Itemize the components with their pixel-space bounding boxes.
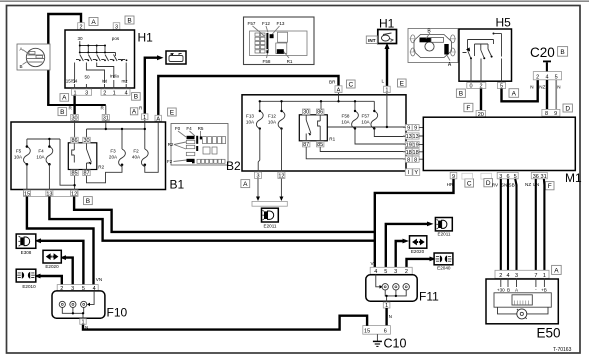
svg-text:8: 8: [545, 111, 548, 117]
label A connector box of H1 top: [89, 18, 98, 26]
fuse F12 10A: [268, 110, 285, 130]
svg-text:NZ: NZ: [525, 182, 531, 187]
pin 30 of B1: [71, 115, 79, 122]
label F box: [545, 182, 554, 191]
E50 pin strip 2 4 3 7 1: [495, 270, 549, 279]
car location illustration: [408, 29, 458, 69]
wire B2 pin1 up to H1 INT with arrow: [385, 43, 390, 87]
label B box below H5: [456, 89, 465, 98]
svg-text:12: 12: [278, 173, 284, 179]
M1 bottom pins 36 31: [531, 172, 547, 179]
battery + feed symbol: [543, 61, 551, 72]
label B box left of B1 pin30: [58, 108, 67, 116]
C20 pin strip 2 4 5: [533, 72, 561, 81]
relay pin 87: [303, 141, 310, 148]
svg-text:F57: F57: [362, 114, 370, 119]
E2011 icon (below B2): [262, 208, 279, 228]
svg-text:+B: +B: [541, 287, 547, 292]
svg-text:31: 31: [541, 174, 547, 180]
H1 bottom pin strip right (2,1,4): [101, 89, 130, 96]
B1 bottom pin strip: [23, 190, 78, 197]
svg-text:6: 6: [384, 329, 387, 335]
svg-text:15: 15: [364, 329, 370, 335]
fuse F58 10A: [341, 110, 358, 130]
wires M1 pins 3 6 5 to E50: [501, 179, 517, 270]
svg-text:E2020: E2020: [45, 264, 59, 269]
svg-text:3: 3: [515, 273, 518, 279]
svg-text:C: C: [467, 180, 472, 187]
svg-text:19: 19: [406, 143, 412, 149]
wire H1 pin1 down to B1 pin30: [73, 95, 75, 115]
svg-text:1: 1: [543, 273, 546, 279]
svg-text:50: 50: [84, 75, 90, 80]
wire M1 pin9 to F11 pin4: [375, 179, 454, 267]
switch unit H1 box: [65, 30, 153, 88]
wires M1 pins 36 31 to E50: [536, 179, 545, 270]
F58 output to row19: [355, 129, 406, 144]
svg-text:F13: F13: [277, 21, 285, 26]
svg-text:86: 86: [317, 110, 323, 116]
B1 box: [11, 122, 185, 192]
svg-text:18: 18: [406, 150, 412, 156]
svg-text:2: 2: [536, 74, 539, 80]
label E box right of B2 pin1: [398, 79, 407, 87]
wire labels RV SN SB: [492, 182, 515, 187]
relay85 output to row18: [320, 147, 405, 152]
svg-text:86: 86: [71, 138, 77, 144]
svg-text:F58: F58: [263, 59, 271, 64]
wire F10 pin2 ref to E2010: [34, 274, 62, 285]
page top rule: [0, 0, 589, 2]
INT tag box: [366, 36, 377, 44]
svg-text:N: N: [530, 85, 533, 90]
svg-text:B2: B2: [226, 159, 241, 173]
wire H5 pin5 to C20 pin2: [502, 80, 538, 101]
label B below H1: [132, 93, 141, 101]
E50 internals: [494, 279, 551, 319]
svg-text:B: B: [134, 94, 138, 101]
svg-text:A: A: [62, 95, 67, 102]
pin 1 on B2 top: [384, 86, 391, 93]
E2020 icon box (right): [410, 236, 427, 254]
B2 internal supply rail: [259, 93, 375, 115]
svg-text:int: int: [102, 79, 108, 84]
wire F11 pin3 ref to E2020: [396, 239, 409, 268]
svg-text:3: 3: [85, 90, 88, 96]
svg-text:30: 30: [77, 36, 83, 41]
svg-text:30: 30: [303, 110, 309, 116]
svg-text:10A: 10A: [246, 120, 255, 125]
svg-text:A: A: [337, 87, 341, 93]
svg-text:N: N: [557, 85, 560, 90]
fuse location illustration (right of B1): [167, 124, 228, 166]
H5 bottom pin strip: [467, 83, 506, 90]
svg-text:R2: R2: [98, 165, 104, 170]
B2/M1 connector pin ladder: [403, 125, 424, 164]
svg-text:F12: F12: [268, 114, 276, 119]
wire H5 pin2 to M1 pin20: [480, 89, 482, 111]
relay pin 86: [317, 109, 324, 116]
fuse F4 10A: [36, 145, 52, 165]
svg-text:BR: BR: [329, 80, 336, 85]
relay R2 box: [68, 143, 104, 170]
svg-text:40A: 40A: [132, 155, 141, 160]
fuse F2 40A: [132, 149, 148, 167]
svg-text:F58: F58: [342, 114, 350, 119]
svg-text:0: 0: [469, 84, 472, 90]
svg-text:F0: F0: [175, 126, 181, 131]
F13 output to pin3: [258, 129, 260, 172]
svg-text:H5: H5: [496, 16, 512, 30]
M1 top pin 20: [476, 110, 485, 117]
label C box: [465, 179, 474, 188]
svg-text:E308: E308: [21, 250, 32, 255]
svg-text:M1: M1: [565, 171, 582, 185]
svg-text:9: 9: [407, 126, 410, 132]
wire stub B1 pin31 up: [105, 106, 107, 115]
E308 icon box (left headlight): [16, 234, 36, 255]
svg-text:F11: F11: [419, 290, 439, 304]
E2040 icon box (right): [434, 253, 453, 270]
H5 internal contacts: [463, 33, 502, 83]
svg-text:SB: SB: [509, 182, 515, 187]
svg-text:F12: F12: [262, 21, 270, 26]
ground symbol: [373, 334, 382, 346]
M1 bottom pins 3 6 5: [497, 172, 518, 179]
svg-text:mz: mz: [121, 79, 128, 84]
svg-text:T-70163: T-70163: [553, 347, 572, 353]
svg-text:A: A: [554, 268, 559, 275]
svg-text:E: E: [400, 80, 405, 87]
svg-text:SN: SN: [501, 182, 507, 187]
pin 2 of H1 top: [78, 23, 85, 31]
svg-text:9: 9: [414, 126, 417, 132]
svg-text:B: B: [60, 109, 64, 116]
svg-text:B: B: [507, 287, 510, 292]
F10 pin 1: [80, 319, 86, 326]
battery reference icon box: [166, 51, 186, 64]
svg-text:E2010: E2010: [22, 284, 36, 289]
svg-text:F57: F57: [248, 21, 256, 26]
label C box: [347, 80, 356, 88]
svg-text:A: A: [512, 91, 517, 98]
wire labels NZ LN: [525, 182, 539, 187]
relay pin 30: [83, 137, 90, 144]
label A box above B1 pin1: [130, 108, 137, 116]
svg-text:5: 5: [555, 74, 558, 80]
svg-text:9: 9: [554, 111, 557, 117]
B1 internal 30 rail: [75, 120, 146, 149]
E2020 icon box (left): [43, 250, 61, 268]
svg-text:15/54: 15/54: [66, 79, 78, 84]
E50 box: [486, 279, 561, 341]
svg-text:10A: 10A: [36, 155, 45, 160]
B2 bottom pin 3: [255, 172, 262, 179]
wire F10 pin5 ref to E308: [35, 238, 84, 284]
svg-text:L: L: [382, 79, 385, 84]
svg-text:F4: F4: [186, 126, 192, 131]
fuse F57 10A: [361, 110, 377, 130]
svg-text:10A: 10A: [14, 155, 23, 160]
F10 internals: [59, 291, 94, 319]
svg-text:1: 1: [385, 88, 388, 94]
F10 lamp unit box: [52, 291, 128, 320]
F57 output to row13: [374, 129, 405, 137]
M1 bottom pin 9: [450, 172, 457, 179]
svg-text:30: 30: [83, 138, 89, 144]
relay R1 box: [299, 115, 335, 142]
svg-text:A: A: [243, 181, 248, 188]
fuse F5 10A: [14, 145, 30, 165]
relay pin 85: [71, 170, 78, 177]
connector face illustration (circle): [17, 44, 50, 70]
svg-text:B: B: [127, 17, 131, 24]
label A below H1: [60, 94, 69, 102]
relay 87 wire to F3: [87, 165, 123, 183]
svg-text:C10: C10: [384, 337, 407, 351]
relay pin 30: [303, 109, 310, 116]
switch unit H5 box: [459, 16, 512, 82]
pin 3 of H1 top: [113, 23, 120, 31]
label E box top right of B1: [168, 108, 177, 116]
E2011 icon box (right): [435, 218, 452, 237]
pin 31 of B1: [102, 115, 109, 122]
B1.A internal wire to F2: [145, 121, 158, 172]
label A box below H5: [509, 89, 519, 98]
svg-text:R2: R2: [168, 142, 174, 147]
svg-text:E2020: E2020: [411, 249, 425, 254]
wire F10 pin3 ref to E2020: [60, 255, 73, 284]
svg-text:13: 13: [413, 134, 419, 140]
svg-text:4: 4: [545, 74, 548, 80]
F11 lamp unit box: [366, 275, 439, 304]
wire B1.A up over to B2.A (BR): [158, 76, 338, 116]
B2 output arrows to E2011: [252, 179, 287, 207]
svg-text:F: F: [466, 105, 470, 112]
svg-text:F5: F5: [16, 149, 22, 154]
F4 output to pin13: [48, 164, 50, 190]
svg-text:F3: F3: [110, 149, 116, 154]
svg-text:19: 19: [413, 143, 419, 149]
F11 internals: [376, 274, 410, 302]
svg-text:4: 4: [506, 273, 509, 279]
svg-text:N: N: [85, 325, 88, 330]
svg-text:F4: F4: [38, 149, 44, 154]
F5 output to pin15: [26, 164, 28, 190]
H1 bottom pin strip left (1,3): [72, 89, 92, 96]
svg-text:+30: +30: [497, 287, 505, 292]
battery reference wire with arrow: [145, 55, 164, 114]
B2 box: [226, 95, 406, 173]
svg-text:1: 1: [113, 90, 116, 96]
svg-text:C20: C20: [530, 45, 555, 60]
label B box below B1: [84, 197, 93, 205]
F12 output to pin12: [281, 129, 283, 172]
svg-text:VN: VN: [96, 277, 102, 282]
svg-text:Y: Y: [414, 170, 418, 176]
label F box: [464, 103, 473, 112]
label D box: [563, 104, 572, 112]
svg-text:R5: R5: [198, 126, 204, 131]
B2 pin1 internal wire: [328, 93, 406, 128]
svg-text:F10: F10: [107, 306, 128, 320]
svg-text:E2040: E2040: [437, 265, 451, 270]
pin A of B1: [155, 115, 161, 122]
svg-text:NZ: NZ: [539, 85, 545, 90]
wire B1 pin12 staircase to F11 pin4 column: [74, 197, 375, 232]
svg-text:F13: F13: [246, 114, 254, 119]
relay pin 87: [83, 170, 90, 177]
F11 pin strip 4 5 3 2: [370, 267, 412, 275]
svg-text:INT: INT: [368, 38, 376, 43]
wire battery feed to H1 pin2 and B1 pins 30/31 (R): [47, 14, 106, 106]
svg-text:13: 13: [406, 134, 412, 140]
svg-text:B1: B1: [170, 178, 185, 192]
svg-text:B: B: [20, 64, 23, 69]
svg-text:2: 2: [103, 90, 106, 96]
node junction at 74.6,105.5: [73, 104, 76, 107]
wire B1 pin15 staircase to F10 pin4 (VN): [27, 197, 94, 285]
H1 INT icon box: [378, 30, 397, 44]
svg-text:pos: pos: [112, 36, 120, 41]
relay pin 86: [71, 137, 78, 144]
svg-text:D: D: [565, 105, 570, 112]
label A box: [552, 265, 562, 274]
relay pin 85: [317, 141, 324, 148]
M1 top pins 8 9: [542, 109, 560, 117]
wire F11 pin1 to C10 pin6 (N): [387, 308, 392, 326]
svg-text:E50: E50: [537, 326, 561, 341]
C20 label: [530, 45, 555, 60]
wire F10 pin1 to C10 pin15: [83, 316, 367, 330]
wire B1 pin13 staircase to F11 pin4 column: [49, 197, 374, 241]
relay 85 wire to pin12: [73, 176, 75, 190]
B2 bottom pin 12: [278, 172, 285, 179]
svg-text:C: C: [348, 81, 353, 88]
svg-text:E: E: [170, 109, 175, 116]
svg-text:int/a: int/a: [110, 74, 119, 79]
svg-text:D: D: [486, 180, 491, 187]
B1 fuse supply rail F5/F4: [27, 138, 75, 185]
svg-text:20A: 20A: [109, 155, 118, 160]
svg-text:B: B: [86, 198, 90, 205]
svg-text:10A: 10A: [268, 120, 277, 125]
svg-text:F: F: [548, 183, 552, 190]
svg-text:A: A: [91, 19, 96, 26]
wire C20 pin4 to M1 pin8: [546, 80, 548, 110]
svg-text:8: 8: [407, 157, 410, 163]
label D box: [484, 179, 493, 188]
svg-text:18: 18: [413, 150, 419, 156]
svg-text:F2: F2: [167, 159, 173, 164]
wire F11 pin5 ref to E2011: [386, 222, 434, 268]
svg-text:7: 7: [534, 273, 537, 279]
svg-text:H1: H1: [138, 31, 154, 45]
svg-text:RV: RV: [492, 182, 499, 187]
svg-text:F2: F2: [133, 149, 139, 154]
connector letter boxes I / Y: [405, 169, 419, 176]
F10 pin strip 2 3 5 4: [57, 285, 98, 292]
label B connector box of H1 top: [125, 16, 134, 24]
svg-text:10A: 10A: [341, 120, 350, 125]
F11 pin 1: [383, 302, 390, 309]
wire C20 pin5 to M1 pin9 (grey): [555, 80, 557, 110]
label A box below B2: [241, 180, 250, 188]
fuse F13 10A: [246, 110, 263, 130]
relay87 output to row8: [306, 147, 405, 159]
svg-text:A: A: [132, 109, 137, 116]
svg-text:H1: H1: [379, 17, 395, 31]
label B box: [558, 47, 568, 57]
svg-text:1: 1: [73, 90, 76, 96]
svg-text:8: 8: [414, 157, 417, 163]
svg-text:R1: R1: [287, 59, 293, 64]
svg-text:E2011: E2011: [264, 223, 277, 228]
wire F11 pin2 ref to E2040: [407, 257, 437, 268]
svg-text:R1: R1: [329, 137, 335, 142]
spare connector boxes (faint): [462, 173, 492, 179]
pin 1 of B1 (battery): [142, 114, 148, 121]
svg-text:2: 2: [499, 273, 502, 279]
wire labels N NZ N: [530, 85, 560, 90]
svg-text:N: N: [389, 314, 392, 319]
fuse F3 20A: [109, 149, 125, 167]
svg-text:B: B: [459, 91, 463, 98]
svg-text:4: 4: [125, 90, 128, 96]
pin A on B2 top: [335, 86, 342, 94]
svg-text:10A: 10A: [361, 120, 370, 125]
H1 internal ladder: [66, 36, 129, 89]
svg-text:E2011: E2011: [438, 231, 451, 236]
svg-text:B: B: [560, 49, 564, 56]
svg-text:3: 3: [256, 173, 259, 179]
E2010 icon box (position lights): [16, 269, 36, 289]
